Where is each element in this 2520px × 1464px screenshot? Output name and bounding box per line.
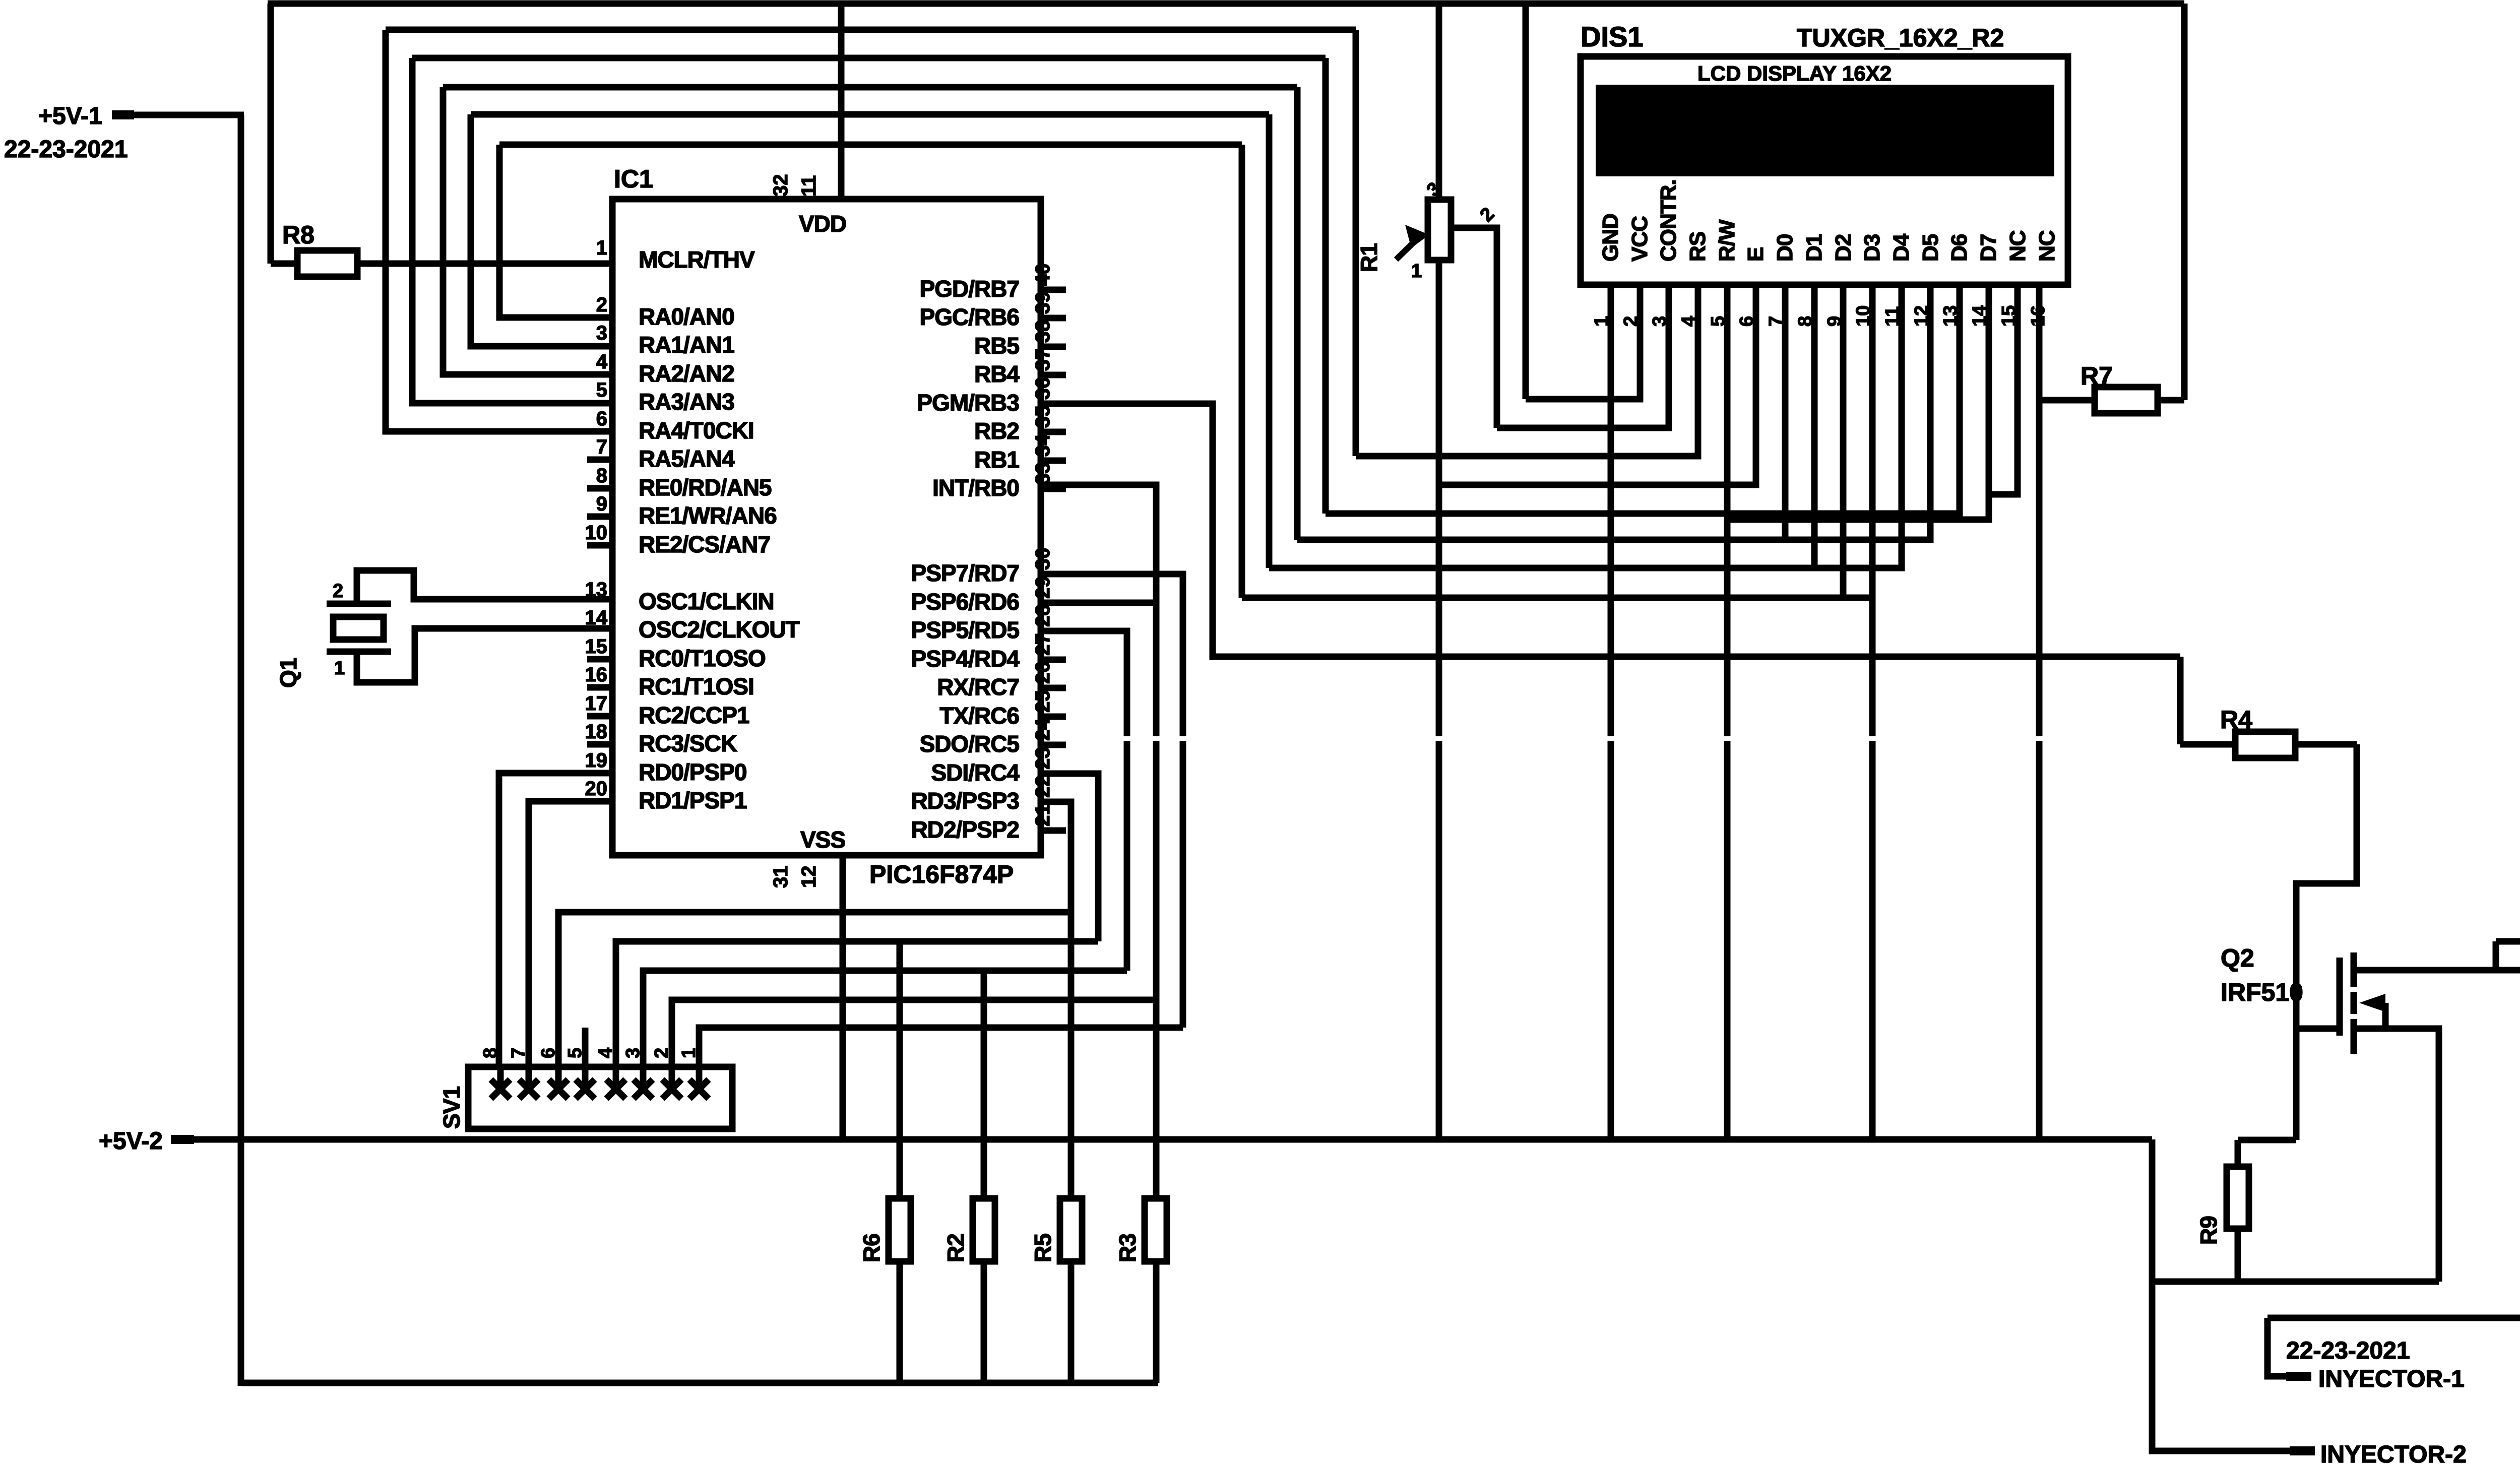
svg-text:7: 7: [508, 1048, 529, 1058]
svg-text:1: 1: [334, 658, 345, 679]
svg-text:RB4: RB4: [974, 361, 1020, 387]
svg-text:R9: R9: [2195, 1216, 2222, 1245]
pin stub: [587, 457, 612, 463]
wire LCD pin8 D1: [1811, 285, 1818, 568]
svg-text:D3: D3: [1860, 234, 1884, 262]
svg-text:R3: R3: [1114, 1234, 1141, 1262]
svg-text:19: 19: [585, 749, 608, 772]
svg-text:SDO/RC5: SDO/RC5: [920, 731, 1020, 757]
wire left vertical to pin6: [386, 30, 612, 431]
svg-text:6: 6: [538, 1048, 559, 1058]
terminal INYECTOR-2: [2290, 1441, 2467, 1464]
wire pin20 to SV1 pin7: [529, 801, 612, 1089]
svg-text:INT/RB0: INT/RB0: [932, 475, 1019, 501]
svg-text:RC0/T1OSO: RC0/T1OSO: [639, 645, 766, 671]
wire D2 line to pin9: [1242, 595, 1872, 601]
wire crystal to pin14: [357, 628, 612, 682]
svg-text:32: 32: [770, 174, 792, 197]
pin stub 30: [1041, 571, 1066, 578]
wire staircase rail 1868: [616, 941, 1098, 1089]
wire right bus drop to D1 line: [1266, 114, 1273, 568]
wire left vertical to pin2: [499, 145, 612, 317]
svg-text:5: 5: [564, 1048, 586, 1058]
connector pin 1 X: [689, 1067, 709, 1099]
wire IC pin36 net to R4: [1041, 404, 2180, 657]
wire gate to R9: [2238, 1137, 2296, 1143]
pin stub 25: [1041, 714, 1066, 720]
svg-text:8: 8: [596, 465, 607, 487]
pin stub: [587, 684, 612, 691]
wire LCD pin1 GND long drop: [1608, 285, 1614, 1139]
wire right bus drop to RW line: [1322, 58, 1329, 514]
pin stub 23: [1041, 771, 1066, 777]
svg-text:R2: R2: [942, 1234, 969, 1262]
svg-text:RC3/SCK: RC3/SCK: [639, 730, 737, 756]
wire +5V-2 corner drop: [2152, 1139, 2290, 1451]
wire LCD pin4 RS: [1356, 285, 1698, 456]
wire VDD stub: [838, 4, 845, 199]
svg-text:22-23-2021: 22-23-2021: [2286, 1338, 2410, 1364]
resistor R8: [271, 221, 612, 277]
svg-text:RC1/T1OSI: RC1/T1OSI: [639, 673, 754, 699]
wire drain rail to right: [2496, 941, 2520, 1398]
svg-text:27: 27: [1032, 633, 1054, 656]
wire drain line to R11: [2496, 970, 2520, 998]
svg-text:2: 2: [596, 294, 607, 316]
svg-text:RD2/PSP2: RD2/PSP2: [911, 816, 1019, 843]
wire LCD pin12 D5: [1297, 285, 1930, 540]
svg-text:6: 6: [596, 408, 607, 430]
trimmer R1 wiper arrow: [1396, 239, 1417, 260]
svg-text:R5: R5: [1030, 1234, 1056, 1262]
svg-text:RA3/AN3: RA3/AN3: [639, 389, 734, 415]
wire R1 wiper to CONTR: [1452, 228, 1497, 428]
connector pin 7 X: [519, 1067, 538, 1099]
svg-text:37: 37: [1032, 349, 1054, 371]
wire top rail drop to R7: [2181, 4, 2188, 400]
svg-text:IRF510: IRF510: [2221, 978, 2303, 1006]
terminal INYECTOR-1: [2267, 1318, 2465, 1392]
svg-text:D7: D7: [1976, 234, 2001, 262]
svg-text:+5V-1: +5V-1: [38, 103, 102, 130]
crystal Q1 body: [333, 617, 384, 640]
wire R4 to gate jog: [2296, 744, 2357, 1140]
svg-text:RA5/AN4: RA5/AN4: [639, 445, 735, 472]
wire R2 drop: [981, 971, 987, 1383]
pin stub 28: [1041, 628, 1066, 634]
svg-text:RD0/PSP0: RD0/PSP0: [639, 759, 746, 785]
svg-text:15: 15: [585, 635, 608, 658]
wire pin19 to SV1 pin8: [499, 773, 612, 1089]
connector pin 3 X: [634, 1067, 653, 1099]
supply terminal +5V-1: [38, 103, 134, 130]
wire bus rail D y227: [471, 111, 1269, 118]
svg-text:IC1: IC1: [614, 165, 653, 193]
svg-text:18: 18: [585, 721, 608, 743]
svg-text:DIS1: DIS1: [1581, 21, 1644, 52]
transistor Q2 channel bars: [2351, 952, 2357, 1054]
wire LCD pin7 D0: [1782, 285, 1789, 540]
svg-text:PSP4/RD4: PSP4/RD4: [911, 646, 1020, 672]
wire VSS stub: [840, 855, 846, 1139]
svg-text:Q2: Q2: [2221, 944, 2254, 972]
pin stub: [587, 514, 612, 520]
wire LCD pin3 CONTR: [1497, 285, 1669, 428]
svg-text:VSS: VSS: [800, 826, 845, 853]
wire LCD pin10 D3 long drop: [1869, 285, 1876, 1139]
svg-text:RA1/AN1: RA1/AN1: [639, 332, 734, 358]
svg-text:SV1: SV1: [438, 1087, 465, 1129]
svg-text:RC2/CCP1: RC2/CCP1: [639, 702, 749, 728]
svg-text:30: 30: [1032, 548, 1054, 570]
wire right bus drop to D2 line: [1239, 145, 1245, 598]
wire IC pin33 INT/RB0 drop through R3: [1041, 485, 1156, 1383]
svg-text:2: 2: [1476, 204, 1499, 226]
resistor R2: [942, 1198, 995, 1262]
svg-text:LCD DISPLAY 16X2: LCD DISPLAY 16X2: [1697, 61, 1892, 85]
resistor R3: [1114, 1198, 1167, 1262]
wire left vertical to pin5: [412, 58, 612, 403]
svg-text:39: 39: [1032, 292, 1054, 314]
svg-text:+5V-2: +5V-2: [99, 1128, 163, 1155]
pin stub: [587, 656, 612, 663]
wire source bottom rail: [2152, 1279, 2439, 1285]
svg-text:RB5: RB5: [974, 333, 1019, 359]
svg-text:TUXGR_16X2_R2: TUXGR_16X2_R2: [1797, 24, 2004, 52]
wire IC pin23 drop: [1041, 774, 1098, 941]
svg-text:28: 28: [1032, 605, 1054, 627]
svg-text:RB2: RB2: [974, 418, 1019, 444]
wire break artifact stripe: [1051, 736, 2074, 741]
svg-text:INYECTOR-1: INYECTOR-1: [2318, 1366, 2465, 1392]
wire LCD pin2 VCC: [1526, 285, 1640, 399]
connector SV1 box: [468, 1067, 732, 1129]
pin stub 33: [1041, 486, 1066, 492]
svg-text:NC: NC: [2035, 230, 2059, 262]
svg-text:GND: GND: [1598, 214, 1623, 262]
svg-text:VCC: VCC: [1627, 216, 1652, 262]
svg-text:3: 3: [622, 1048, 644, 1058]
svg-text:RE2/CS/AN7: RE2/CS/AN7: [639, 531, 770, 557]
wire LCD pin11 D4: [1269, 285, 1902, 568]
wire R1 vertical +5V: [1436, 4, 1442, 1139]
svg-text:22: 22: [1032, 776, 1054, 798]
pin stub 29: [1041, 600, 1066, 606]
wire LCD pin9 D2: [1840, 285, 1847, 598]
wire LED bottom rail: [2267, 1315, 2520, 1321]
svg-text:21: 21: [1032, 804, 1054, 827]
svg-text:9: 9: [596, 493, 607, 515]
svg-text:36: 36: [1032, 377, 1054, 400]
pin stub 38: [1041, 344, 1066, 350]
svg-text:RS: RS: [1685, 232, 1710, 262]
wire left vertical to pin4: [443, 87, 612, 374]
resistor R7: [2039, 362, 2184, 413]
svg-text:R6: R6: [858, 1234, 885, 1262]
svg-text:16: 16: [585, 664, 608, 686]
pin stub: [587, 741, 612, 748]
svg-text:OSC1/CLKIN: OSC1/CLKIN: [639, 588, 774, 614]
svg-text:D0: D0: [1773, 234, 1797, 262]
svg-text:4: 4: [595, 1048, 616, 1058]
pin stub 35: [1041, 429, 1066, 435]
svg-text:TX/RC6: TX/RC6: [939, 703, 1019, 729]
pin stub 21: [1041, 828, 1066, 834]
wire LCD pin16 NC long drop: [2036, 285, 2043, 1139]
connector pin 4 X: [606, 1067, 625, 1099]
wire bus rail C y173: [443, 84, 1297, 91]
pin stub 39: [1041, 315, 1066, 322]
wire IC pin29 stub wire: [1041, 600, 1156, 606]
IC U1 box: [612, 199, 1041, 855]
svg-text:38: 38: [1032, 321, 1054, 343]
wire long vertical +5V down left side: [238, 115, 244, 1386]
wire LCD pin6 E: [1439, 285, 1756, 485]
wire left vertical to pin3: [471, 114, 612, 346]
wire LCD pin14 D7: [1727, 285, 1989, 520]
svg-text:R8: R8: [282, 221, 314, 249]
crystal Q1 top plate: [327, 601, 391, 607]
svg-text:CONTR.: CONTR.: [1656, 179, 1681, 262]
svg-text:D1: D1: [1802, 234, 1826, 262]
svg-text:2: 2: [651, 1048, 672, 1058]
svg-text:D5: D5: [1918, 234, 1943, 262]
svg-text:17: 17: [585, 692, 608, 715]
svg-text:VDD: VDD: [799, 211, 846, 237]
connector pin 8 X: [491, 1067, 510, 1099]
pin stub 36: [1041, 401, 1066, 407]
svg-text:RX/RC7: RX/RC7: [937, 674, 1019, 700]
wire bus rail A y59: [386, 27, 1356, 33]
connector pin 5 X: [576, 1067, 595, 1099]
supply terminal +5V-2: [99, 1128, 194, 1155]
pin stub 24: [1041, 742, 1066, 748]
wire staircase rail 1810: [558, 912, 1071, 1089]
svg-text:PSP7/RD7: PSP7/RD7: [911, 560, 1019, 586]
svg-text:4: 4: [596, 351, 608, 373]
transistor Q2 gate bar: [2337, 958, 2343, 1036]
svg-text:PGC/RB6: PGC/RB6: [920, 304, 1019, 330]
svg-text:35: 35: [1032, 406, 1054, 428]
wire LCD pin5 RW long drop: [1724, 285, 1731, 1139]
resistor R9: [2195, 1140, 2249, 1282]
wire +5V-1 to junction: [133, 112, 244, 118]
trimmer R1 body: [1428, 200, 1451, 260]
svg-text:PGD/RB7: PGD/RB7: [920, 276, 1019, 302]
svg-text:RE1/WR/AN6: RE1/WR/AN6: [639, 502, 777, 529]
svg-text:RA2/AN2: RA2/AN2: [639, 360, 734, 387]
pin stub 34: [1041, 458, 1066, 464]
svg-text:5: 5: [596, 379, 607, 401]
transistor Q2 substrate arrow: [2359, 994, 2385, 1029]
wire staircase rail 1926: [643, 971, 1127, 1089]
svg-text:INYECTOR-2: INYECTOR-2: [2320, 1441, 2467, 1464]
svg-text:PSP6/RD6: PSP6/RD6: [911, 589, 1019, 615]
wire R6 drop: [897, 941, 903, 1383]
svg-text:22-23-2021: 22-23-2021: [4, 136, 128, 163]
wire LCD pin13 D6: [1326, 285, 1960, 514]
pin stub 26: [1041, 685, 1066, 691]
svg-text:29: 29: [1032, 577, 1054, 599]
wire staircase rail 1984: [672, 1000, 1156, 1089]
svg-text:24: 24: [1032, 718, 1054, 741]
wire +5V-2 rail: [194, 1136, 2152, 1143]
svg-text:R/W: R/W: [1715, 219, 1739, 262]
svg-text:7: 7: [596, 436, 607, 458]
svg-text:D2: D2: [1831, 234, 1856, 262]
svg-text:Q1: Q1: [275, 658, 301, 688]
pin stub: [587, 713, 612, 720]
svg-text:D4: D4: [1889, 233, 1914, 262]
pin stub 40: [1041, 287, 1066, 293]
wire right bus drop to E line: [1353, 30, 1359, 456]
resistor R6: [858, 1198, 911, 1262]
resistor R5: [1030, 1198, 1082, 1262]
svg-text:11: 11: [798, 175, 820, 197]
svg-text:D6: D6: [1947, 234, 1972, 262]
svg-text:1: 1: [1411, 261, 1422, 282]
wire LCD pin15 NC: [1989, 285, 2018, 494]
wire IC pin30 drop: [1041, 574, 1183, 1028]
svg-text:PGM/RB3: PGM/RB3: [917, 390, 1019, 416]
resistor R4: [2180, 657, 2357, 758]
svg-text:RA0/AN0: RA0/AN0: [639, 303, 734, 330]
wire gate connect: [2296, 1026, 2339, 1032]
wire pin13 to crystal: [357, 570, 612, 604]
wire Q2 drain: [2357, 941, 2496, 970]
pin stub 37: [1041, 372, 1066, 378]
svg-text:E: E: [1743, 247, 1768, 262]
pin stub 27: [1041, 657, 1066, 663]
svg-text:34: 34: [1032, 434, 1054, 457]
wire IC pin22 drop through R5: [1041, 802, 1071, 1383]
svg-text:25: 25: [1032, 690, 1054, 713]
svg-text:31: 31: [770, 866, 792, 888]
wire Q2 source: [2357, 1029, 2439, 1282]
pin stub: [587, 485, 612, 492]
svg-text:RE0/RD/AN5: RE0/RD/AN5: [639, 474, 772, 500]
wire staircase rail 2039: [699, 1028, 1183, 1089]
pin stub 22: [1041, 799, 1066, 805]
svg-text:RA4/T0CKI: RA4/T0CKI: [639, 417, 754, 443]
wire bus rail B y115: [412, 55, 1326, 61]
svg-text:23: 23: [1032, 747, 1054, 770]
svg-text:8: 8: [480, 1048, 501, 1058]
svg-text:PIC16F874P: PIC16F874P: [869, 860, 1014, 888]
svg-text:PSP5/RD5: PSP5/RD5: [911, 617, 1020, 643]
wire bottom ground rail: [241, 1380, 1158, 1386]
wire bus rail E y287: [499, 142, 1242, 148]
pin stub: [587, 542, 612, 549]
svg-text:MCLR/THV: MCLR/THV: [639, 246, 755, 273]
connector pin 2 X: [662, 1067, 681, 1099]
svg-text:OSC2/CLKOUT: OSC2/CLKOUT: [639, 616, 800, 643]
svg-text:1: 1: [678, 1048, 700, 1058]
connector pin 6 X: [549, 1067, 568, 1099]
svg-text:3: 3: [596, 322, 607, 344]
wire IC pin28 drop: [1041, 631, 1127, 971]
svg-text:2: 2: [333, 581, 343, 602]
crystal Q1 bottom plate: [327, 649, 391, 655]
svg-text:26: 26: [1032, 662, 1054, 684]
svg-text:1: 1: [596, 237, 607, 259]
display LCD screen area: [1596, 85, 2054, 176]
svg-text:RD3/PSP3: RD3/PSP3: [911, 788, 1019, 814]
wire VCC drop from top rail: [1523, 4, 1529, 399]
svg-text:NC: NC: [2005, 230, 2030, 262]
svg-text:R1: R1: [1356, 243, 1382, 272]
svg-text:10: 10: [585, 522, 608, 544]
wire right bus drop to D0 line: [1294, 87, 1301, 540]
wire vertical from top rail to R8: [268, 4, 274, 264]
wire top rail: [268, 1, 2184, 7]
svg-text:RB1: RB1: [974, 447, 1019, 473]
svg-text:12: 12: [798, 866, 820, 888]
svg-text:20: 20: [585, 778, 608, 800]
svg-text:SDI/RC4: SDI/RC4: [931, 759, 1020, 786]
svg-text:RD1/PSP1: RD1/PSP1: [639, 787, 747, 813]
svg-text:33: 33: [1032, 463, 1054, 485]
wire SV1 pin5 riser: [582, 1028, 589, 1089]
display DIS1 box: [1581, 56, 2068, 285]
svg-text:40: 40: [1032, 264, 1054, 286]
